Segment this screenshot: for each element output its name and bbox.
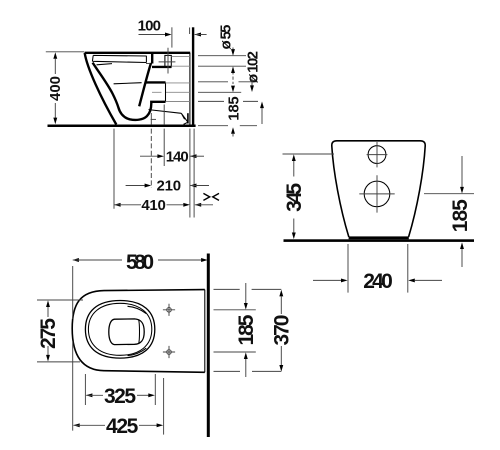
- rear large hole crosshair: [359, 175, 394, 212]
- dim 185 plan arrow down: [245, 283, 247, 303]
- seat ring outer: [85, 301, 154, 359]
- plan row body bottom: [214, 370, 282, 372]
- dim 210 left arrow: [126, 185, 145, 187]
- toilet back face: [189, 53, 191, 125]
- dim 100 extension: [171, 27, 173, 47]
- dim 400 extension line: [46, 51, 84, 53]
- dim 325 right extension: [154, 374, 156, 405]
- svg-text:185: 185: [449, 199, 472, 232]
- ext line front foot: [113, 129, 115, 209]
- compressed symbol: [203, 193, 219, 200]
- ext line trap center dashed: [150, 113, 152, 124]
- fixing hole top crosshair: [163, 304, 175, 316]
- dim 240 right arrow: [408, 278, 415, 282]
- dim o102 arrow down: [251, 79, 253, 86]
- svg-text:185: 185: [235, 314, 258, 345]
- svg-text:210: 210: [157, 178, 182, 195]
- outlet to wall connector bottom: [166, 101, 190, 103]
- flush channel diagonal: [139, 63, 151, 106]
- bowl interior and trap curve: [93, 63, 166, 120]
- svg-text:410: 410: [141, 197, 166, 214]
- dim o102 arrow up offset: [260, 102, 264, 109]
- row outlet center: [198, 91, 241, 93]
- fixing hole bottom crosshair: [163, 346, 175, 358]
- bowl opening outer: [109, 319, 144, 345]
- dim 325 left arrow: [86, 393, 93, 397]
- dim 210 right arrow: [190, 184, 197, 188]
- vario outlet right edge: [187, 113, 189, 123]
- dim 410 right arrow: [167, 204, 184, 206]
- ext line toilet back below floor: [189, 129, 191, 218]
- rear body outline: [332, 141, 425, 237]
- dim 580 right arrow: [158, 259, 201, 261]
- row o55 top: [198, 55, 246, 57]
- dim 275 arrow down: [47, 346, 49, 355]
- dim 370 arrow down: [280, 346, 282, 365]
- rear large hole circle: [364, 181, 390, 207]
- svg-text:185: 185: [225, 96, 242, 121]
- spud left tick: [146, 63, 150, 65]
- dim 370 arrow up: [279, 290, 283, 297]
- outlet to wall connector top: [166, 82, 190, 84]
- dim 410 wall arrow: [195, 203, 202, 207]
- dim 275 arrow up: [46, 300, 50, 307]
- dim 345 arrow down: [293, 219, 295, 233]
- arrow down at center row: [231, 86, 235, 93]
- rear small hole crosshair: [367, 142, 388, 167]
- dim 325 left extension: [84, 374, 86, 405]
- svg-text:325: 325: [104, 385, 136, 408]
- dim 185 rear arrow down: [461, 156, 463, 187]
- rear base strip: [349, 236, 409, 239]
- dim 275 bottom row: [37, 361, 80, 363]
- flush spud inner box: [165, 55, 171, 67]
- svg-text:425: 425: [106, 415, 139, 438]
- dim 425 right arrow: [139, 424, 157, 426]
- row floor level right: [198, 125, 257, 127]
- dim 185 rear arrow up: [460, 242, 464, 249]
- plan row hole bottom: [214, 351, 256, 353]
- toilet front profile curve: [85, 53, 117, 125]
- wall line: [192, 27, 194, 124]
- dim 275 top row: [37, 299, 83, 301]
- row o55 bottom: [198, 65, 246, 67]
- dim 580 left arrow: [72, 258, 79, 262]
- dim 325 right arrow: [137, 394, 149, 396]
- dim 400 arrow down: [53, 118, 57, 125]
- svg-text:100: 100: [138, 18, 161, 35]
- dim 400 line: [54, 59, 56, 118]
- spud to wall connector bottom: [171, 65, 190, 67]
- ext line 140: [163, 105, 165, 167]
- rear floor line: [284, 239, 475, 242]
- plan body outline: [72, 290, 205, 373]
- spud crosshair horizontal: [159, 61, 176, 63]
- row o102 bottom: [198, 100, 258, 102]
- fixing hole top circle: [167, 308, 172, 313]
- dim 400 arrow up: [53, 52, 57, 59]
- svg-text:ø 102: ø 102: [245, 51, 262, 83]
- dim 580 left extension: [72, 266, 74, 431]
- outlet centerline: [152, 91, 190, 93]
- svg-text:275: 275: [37, 318, 60, 349]
- svg-text:580: 580: [126, 251, 154, 274]
- wall top tick: [189, 28, 191, 35]
- dim 100 line: [139, 34, 166, 36]
- dim 410 left arrow: [114, 203, 121, 207]
- flush spud left edge: [151, 53, 153, 64]
- plan row hole top: [214, 309, 256, 311]
- dim 185 rear row: [424, 193, 474, 195]
- bowl opening inner edge: [138, 320, 141, 344]
- dim o55 arrow down: [232, 48, 234, 50]
- svg-text:140: 140: [166, 148, 189, 165]
- spud crosshair vertical: [167, 48, 169, 74]
- toilet top rim line: [85, 52, 191, 54]
- dim 100 arrow: [165, 33, 172, 37]
- ext line wall face below floor: [193, 129, 195, 218]
- svg-text:ø 55: ø 55: [218, 25, 235, 50]
- svg-text:240: 240: [363, 270, 393, 293]
- plan body back edge: [204, 290, 206, 373]
- outlet pipe end: [165, 82, 167, 101]
- dim 240 left arrow: [313, 279, 341, 281]
- dim 425 right extension: [163, 378, 165, 435]
- dim 100 wall tail: [195, 34, 207, 36]
- dim 140 left arrow: [140, 155, 158, 157]
- flush spud bottom: [152, 66, 171, 68]
- vario outlet wedge: [149, 110, 188, 125]
- dim 345 extension row: [283, 153, 335, 155]
- dim 100 wall arrow: [194, 33, 201, 37]
- svg-text:345: 345: [283, 183, 306, 212]
- row o102 top: [198, 81, 257, 83]
- fixing hole bottom circle: [167, 350, 172, 355]
- seat ring inner: [88, 303, 151, 355]
- spud to wall connector top: [171, 56, 190, 58]
- svg-text:370: 370: [271, 315, 294, 346]
- dim 185 plan arrow up: [244, 352, 248, 359]
- dim 240 right extension: [407, 244, 409, 293]
- svg-text:400: 400: [47, 76, 64, 101]
- floor line: [48, 125, 196, 128]
- rear small hole circle: [368, 146, 386, 164]
- dim o55 arrow up: [231, 66, 235, 73]
- dim 425 left arrow: [73, 423, 80, 427]
- dim 140 right arrow: [190, 154, 197, 158]
- outlet pipe top: [146, 81, 166, 83]
- plan row body top: [214, 288, 282, 290]
- seat rim wedge: [92, 55, 146, 64]
- water line: [114, 83, 142, 84]
- trap center tick: [151, 118, 156, 120]
- dim 345 arrow up: [292, 154, 296, 161]
- plan wall line: [207, 254, 210, 438]
- dim 185 side arrow up: [231, 127, 235, 134]
- dashed link: [232, 77, 234, 85]
- dim 240 left extension: [347, 244, 349, 293]
- lid split arc top: [128, 306, 147, 313]
- lid split arc bottom: [128, 348, 147, 355]
